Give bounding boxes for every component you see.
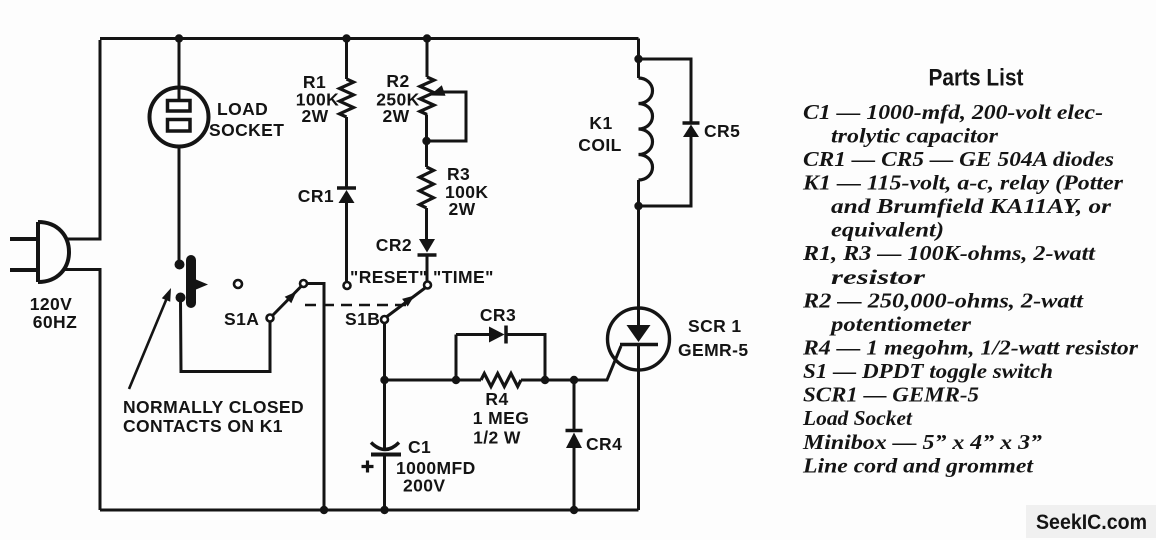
- svg-text:R3: R3: [447, 164, 470, 184]
- svg-text:120V: 120V: [30, 294, 72, 314]
- svg-text:S1A: S1A: [224, 309, 259, 329]
- wire top bus to load socket: [178, 39, 181, 90]
- wire S1B pole down to node: [383, 323, 386, 380]
- diode CR4 triangle: [566, 433, 582, 449]
- wire R3 to CR2: [425, 208, 428, 239]
- resistor R4: [481, 374, 521, 387]
- switch S1A lever: [273, 287, 302, 316]
- junction CR4 top node: [570, 376, 578, 384]
- svg-text:200V: 200V: [403, 476, 445, 496]
- SCR1 cathode bar: [620, 343, 658, 347]
- wire S1A throw to bottom bus: [307, 284, 324, 511]
- diode CR5 cathode bar: [683, 121, 700, 125]
- junction R4 left node: [452, 376, 460, 384]
- wire R2 wiper loop: [427, 92, 467, 141]
- diode CR3 cathode bar: [504, 326, 508, 344]
- potentiometer R2 wiper arrowhead: [430, 85, 446, 95]
- svg-text:Line cord and grommet: Line cord and grommet: [802, 453, 1034, 477]
- wire CR4 bottom lead: [573, 448, 576, 510]
- pointer arrow to NC contacts: [129, 293, 169, 389]
- svg-text:potentiometer: potentiometer: [829, 312, 972, 336]
- wire C1 bottom lead: [383, 457, 386, 511]
- switch S1B lever: [387, 288, 425, 317]
- wire top bus right corner down: [637, 39, 640, 60]
- wire left side from plug bottom prong down to bottom bus: [99, 270, 102, 511]
- svg-text:resistor: resistor: [831, 265, 926, 289]
- SCR1 circle: [608, 308, 670, 370]
- wire CR4 top lead: [573, 380, 576, 430]
- svg-text:R4 — 1 megohm, 1/2-watt resist: R4 — 1 megohm, 1/2-watt resistor: [802, 336, 1139, 360]
- svg-text:SCR 1: SCR 1: [688, 316, 742, 336]
- wire R4 right lead: [521, 379, 545, 382]
- svg-text:COIL: COIL: [578, 135, 621, 155]
- wire load socket down to K1 NC contact: [178, 146, 181, 261]
- plug P1 line cord body: [38, 222, 69, 282]
- switch S1A throw contact: [300, 280, 307, 287]
- junction bottom bus / C1: [380, 506, 388, 514]
- diode CR2 triangle: [419, 239, 435, 253]
- relay K1 NC contact actuation arrow: [196, 280, 208, 290]
- svg-text:60HZ: 60HZ: [33, 312, 77, 332]
- wire CR5 branch bottom: [639, 137, 692, 206]
- relay K1 NC contact armature bar: [186, 260, 196, 303]
- svg-text:CONTACTS ON K1: CONTACTS ON K1: [123, 416, 283, 436]
- junction K1 bottom node: [634, 202, 642, 210]
- SCR1 triangle: [627, 325, 651, 342]
- svg-text:CR5: CR5: [704, 121, 740, 141]
- svg-text:"TIME": "TIME": [433, 267, 494, 287]
- mechanical link dashed line S1A to S1B: [305, 304, 411, 307]
- svg-text:R1, R3 — 100K-ohms, 2-watt: R1, R3 — 100K-ohms, 2-watt: [802, 241, 1096, 265]
- capacitor C1 straight plate: [371, 453, 401, 457]
- wire R1 to CR1: [345, 117, 348, 187]
- junction top bus / R2: [423, 34, 431, 42]
- wire CR1 to RESET contact: [345, 203, 348, 282]
- wire left side from plug top prong up to bus: [99, 40, 102, 239]
- watermark background: [1026, 505, 1156, 538]
- wire K1 bottom lead: [637, 180, 640, 206]
- svg-text:1/2 W: 1/2 W: [473, 428, 521, 448]
- wire bus to R2: [426, 39, 429, 78]
- wire CR5 branch top: [639, 59, 692, 122]
- svg-text:trolytic capacitor: trolytic capacitor: [831, 123, 999, 147]
- wire NC contact down and over to S1A pole: [181, 300, 271, 372]
- diode CR5 triangle: [683, 125, 699, 138]
- svg-text:equivalent): equivalent): [831, 218, 944, 242]
- wire CR2 to TIME contact: [426, 255, 429, 282]
- svg-text:and Brumfield KA11AY, or: and Brumfield KA11AY, or: [831, 194, 1112, 218]
- svg-text:"RESET": "RESET": [350, 267, 428, 287]
- load socket upper slot: [168, 101, 191, 112]
- svg-text:S1B: S1B: [345, 309, 380, 329]
- svg-text:Minibox — 5” x 4” x 3”: Minibox — 5” x 4” x 3”: [802, 430, 1043, 454]
- wire load socket internal lead: [178, 89, 181, 100]
- junction R2 wiper node: [422, 137, 430, 145]
- svg-text:R4: R4: [485, 389, 508, 409]
- svg-text:Parts List: Parts List: [929, 65, 1024, 92]
- svg-text:SeekIC.com: SeekIC.com: [1036, 510, 1147, 534]
- junction bottom bus / CR4: [570, 506, 578, 514]
- relay coil K1: [639, 78, 653, 180]
- diode CR3 triangle: [489, 327, 505, 343]
- svg-text:K1: K1: [589, 113, 612, 133]
- wire SCR cathode to bottom bus: [637, 345, 640, 511]
- svg-text:R2 — 250,000-ohms, 2-watt: R2 — 250,000-ohms, 2-watt: [802, 288, 1084, 312]
- svg-text:LOAD: LOAD: [217, 99, 268, 119]
- wire S1B node to R4 network: [385, 379, 482, 382]
- svg-text:2W: 2W: [449, 199, 476, 219]
- wire CR3 top right segment: [506, 335, 545, 381]
- diode CR1 triangle: [339, 190, 355, 203]
- pointer arrowhead: [162, 288, 171, 302]
- svg-text:SCR1 — GEMR-5: SCR1 — GEMR-5: [803, 383, 979, 407]
- svg-text:GEMR-5: GEMR-5: [678, 340, 748, 360]
- svg-text:R2: R2: [386, 71, 409, 91]
- switch S1B RESET throw contact: [344, 282, 351, 289]
- svg-text:S1 — DPDT toggle switch: S1 — DPDT toggle switch: [803, 359, 1053, 383]
- switch S1B pole contact: [381, 316, 388, 323]
- diode CR2 cathode bar: [418, 253, 437, 257]
- junction top bus / R1: [342, 34, 350, 42]
- svg-text:C1 — 1000-mfd, 200-volt elec-: C1 — 1000-mfd, 200-volt elec-: [803, 100, 1103, 124]
- load socket circle: [150, 88, 209, 147]
- wire top supply bus: [100, 37, 639, 40]
- wire bus to R1: [345, 39, 348, 80]
- switch S1B lever arrowhead: [402, 296, 414, 307]
- resistor R1: [340, 79, 354, 117]
- capacitor C1 curved plate: [371, 443, 399, 450]
- wire K1 node to SCR anode: [637, 206, 640, 325]
- svg-text:CR1: CR1: [298, 186, 334, 206]
- junction S1B / C1 node: [380, 376, 388, 384]
- wire C1 top lead: [383, 380, 386, 450]
- switch S1A lever arrowhead: [285, 292, 297, 304]
- wire plug bottom terminal to left riser: [63, 268, 102, 271]
- switch S1A pole contact: [267, 315, 274, 322]
- svg-text:K1 — 115-volt, a-c, relay (Pot: K1 — 115-volt, a-c, relay (Potter: [802, 171, 1124, 195]
- plug P1 top prong: [10, 237, 38, 241]
- svg-text:SOCKET: SOCKET: [209, 120, 284, 140]
- wire bottom return bus: [100, 509, 639, 512]
- svg-text:CR4: CR4: [586, 434, 622, 454]
- svg-text:CR3: CR3: [480, 305, 516, 325]
- capacitor C1 polarity plus: [362, 461, 374, 473]
- junction R4 right node: [541, 376, 549, 384]
- svg-text:CR2: CR2: [376, 235, 412, 255]
- potentiometer R2: [420, 77, 434, 114]
- switch S1B TIME throw contact: [424, 282, 431, 289]
- wire CR3 left riser: [455, 335, 458, 381]
- junction K1 top node: [634, 55, 642, 63]
- svg-text:2W: 2W: [301, 106, 328, 126]
- load socket lower slot: [168, 120, 191, 132]
- svg-text:2W: 2W: [382, 106, 409, 126]
- svg-text:Load Socket: Load Socket: [802, 406, 913, 430]
- junction bottom bus / S1A return: [320, 506, 328, 514]
- diode CR1 cathode bar: [337, 186, 356, 190]
- wire R2 to R3: [425, 115, 428, 168]
- svg-text:C1: C1: [408, 437, 431, 457]
- svg-text:CR1 — CR5 — GE 504A diodes: CR1 — CR5 — GE 504A diodes: [803, 147, 1114, 171]
- wire K1 top lead: [637, 59, 640, 78]
- diode CR4 cathode bar: [566, 429, 583, 433]
- wire CR3 top left segment: [456, 333, 489, 336]
- svg-text:1 MEG: 1 MEG: [473, 408, 529, 428]
- resistor R3: [420, 167, 434, 208]
- relay K1 NC contact upper point: [175, 260, 185, 270]
- svg-text:NORMALLY CLOSED: NORMALLY CLOSED: [123, 397, 304, 417]
- wire plug top terminal to left riser: [65, 238, 102, 241]
- plug P1 bottom prong: [10, 268, 38, 272]
- wire SCR gate: [545, 346, 621, 380]
- junction top bus / load socket: [175, 34, 183, 42]
- relay K1 NC contact lower point: [176, 293, 186, 303]
- switch S1A unused throw contact: [234, 280, 242, 288]
